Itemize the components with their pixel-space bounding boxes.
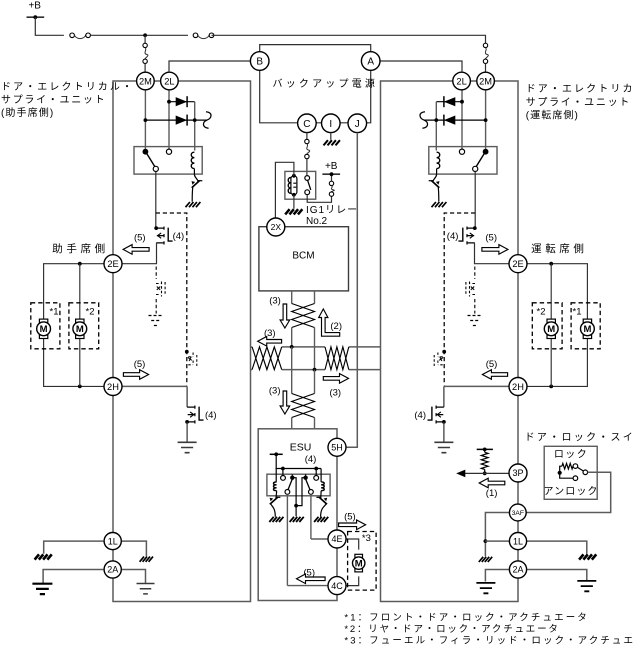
ESU relay coil left (lock) [275, 469, 277, 482]
earth ground below FET (driver-side) [434, 442, 453, 452]
connector 4E [328, 530, 346, 548]
diode D2 row (driver-side) [484, 118, 488, 122]
svg-text:運転席側: 運転席側 [531, 242, 587, 255]
wire drop to left 2M [144, 35, 146, 43]
arrow (5) left at 2E (passenger-side) [123, 245, 149, 255]
dashed FET icon lower (driver-side) [434, 353, 443, 367]
svg-text:(助手席側): (助手席側) [1, 106, 54, 119]
unit relay box (passenger-side) [134, 147, 202, 175]
wire 1L left segment (driver) [485, 540, 509, 542]
svg-text:*1: *1 [50, 307, 59, 318]
wire 2L drop to relay (driver-side) [461, 90, 463, 150]
earth ground (2A right) [137, 584, 155, 594]
connector 2M (passenger-side) [137, 72, 155, 90]
wire 1L to left ground (passenger) [44, 541, 104, 554]
wire 2M drop to relay (driver-side) [485, 90, 487, 150]
svg-text:ロック: ロック [554, 448, 588, 460]
svg-text:M: M [40, 324, 48, 335]
relay coil (driver-side) [437, 152, 440, 168]
wire 2A to right ground (passenger) [121, 570, 145, 584]
svg-text:2H: 2H [107, 382, 119, 392]
wire coil to transistor (passenger-side) [193, 169, 195, 175]
connector J [348, 114, 367, 133]
arrow (5) left at 4C [297, 574, 326, 584]
door lock switch contacts [558, 471, 562, 475]
wire coil to 2X (BCM supply) [275, 162, 294, 218]
svg-text:(運転席側): (運転席側) [526, 109, 579, 122]
earth ground bold (2A left) [32, 584, 52, 594]
wire coil to ground [293, 195, 295, 209]
wire 3P output with arrowhead [462, 472, 509, 474]
connector C [298, 114, 317, 133]
junction dot on dashed edge (passenger-side) [185, 350, 189, 354]
svg-text:*2: *2 [537, 307, 546, 318]
svg-text:(5): (5) [486, 359, 498, 370]
svg-text:IG1リレー: IG1リレー [306, 205, 358, 216]
wire 2M drop to relay (passenger-side) [144, 90, 146, 150]
dashed wire to dashed ground (driver-side) [474, 299, 476, 314]
svg-text:3P: 3P [512, 468, 523, 478]
arrow (5) left at 2H (driver-side) [482, 370, 507, 380]
svg-text:(3): (3) [329, 387, 341, 398]
wire B to left 2L riser [169, 61, 250, 72]
svg-text:No.2: No.2 [306, 216, 328, 227]
wire J down to 5H on ESU [346, 133, 357, 448]
unit relay box (driver-side) [429, 147, 497, 175]
wire 4C left segment [287, 585, 328, 587]
svg-text:ドア・エレクトリカル・: ドア・エレクトリカル・ [1, 81, 134, 93]
connector 2E (driver-side) [509, 255, 527, 273]
wire 2H to lock FET (passenger-side) [122, 385, 187, 387]
ESU switch2 moving contact and arm [305, 474, 307, 478]
svg-text:(5): (5) [485, 232, 497, 243]
relay coil (passenger-side) [191, 152, 194, 168]
wire 2A to left ground (driver) [485, 570, 509, 582]
ground under IG1 coil (chassis, bold) [285, 209, 302, 214]
wire diode D1 to relay coil (passenger-side) [194, 102, 196, 151]
svg-text:助手席側: 助手席側 [52, 242, 108, 255]
junction dot on dashed edge (driver-side) [442, 350, 446, 354]
resistor pull-up at 3P [477, 448, 493, 450]
svg-text:(5): (5) [134, 232, 146, 243]
ESU unlock relay driver transistor [320, 491, 322, 498]
svg-text:2E: 2E [107, 259, 118, 269]
BCM box [259, 227, 349, 291]
svg-text:2M: 2M [139, 76, 152, 86]
wire twisted pair to bus junctions [291, 328, 293, 347]
dashed FET icon mid (driver-side) [466, 282, 475, 297]
svg-text:A: A [367, 57, 374, 68]
motor M *1 front door lock actuator (driver-side) [583, 319, 591, 322]
wire chain to 2M [144, 64, 146, 73]
junction dot CAN-H / bus [290, 345, 294, 349]
CAN bus line upper [282, 346, 325, 348]
svg-text:ドア・ロック・スイッチ: ドア・ロック・スイッチ [525, 431, 634, 443]
wire switch to 3AF [526, 472, 611, 512]
actuator *2 dashed box (passenger-side) [69, 303, 99, 349]
in-line connector chain to +B [329, 181, 333, 185]
svg-text:2A: 2A [107, 565, 118, 575]
svg-text:BCM: BCM [292, 250, 314, 261]
connector 5H [328, 438, 346, 456]
wire below C [306, 133, 308, 140]
node +B (IG1 relay feed) [331, 174, 333, 181]
svg-text:ESU: ESU [290, 442, 312, 454]
internal supply T-bar in ESU [270, 453, 283, 455]
wire relay switch down to FET (driver-side) [474, 172, 476, 229]
motor M *2 rear door lock actuator (passenger-side) [76, 319, 84, 322]
wire chain to right 2M [485, 64, 487, 73]
relay moving contact (passenger-side) [143, 149, 149, 155]
connector I [322, 114, 341, 133]
svg-text:*1：フロント・ドア・ロック・アクチュエータ: *1：フロント・ドア・ロック・アクチュエータ [344, 612, 589, 623]
ESU switch1 moving contact and arm [291, 474, 293, 478]
svg-text:(4): (4) [305, 454, 317, 465]
wire 2H to lock FET (driver-side) [444, 385, 509, 387]
wire 2A to left ground (passenger) [43, 570, 103, 584]
wire switch2 output to 4E [310, 494, 312, 539]
svg-text:ドア・エレクトリカル・: ドア・エレクトリカル・ [526, 83, 634, 95]
ESU switch2 fixed contact stub [315, 469, 317, 476]
ground under lock driver [269, 517, 283, 522]
connector 2L (driver-side) [453, 72, 471, 90]
ground under unlock driver [314, 517, 328, 522]
internal supply rail in ESU [276, 468, 322, 470]
wire 2E to actuator motors (driver-side) [527, 264, 587, 320]
ground under ESU switch common [290, 517, 304, 522]
svg-text:M: M [76, 324, 84, 335]
dashed wire to monitor FET (driver-side) [474, 267, 476, 280]
p-FET lower (passenger-side) with gate (4) [185, 420, 189, 424]
earth ground below FET (passenger-side) [178, 442, 197, 452]
wire rail to right drop at 2M (driver side) [212, 35, 486, 43]
dashed wire to dashed ground (passenger-side) [155, 299, 157, 314]
actuator *2 dashed box (driver-side) [532, 303, 562, 349]
wire 2E to actuator motors (passenger-side) [44, 264, 104, 320]
ESU lock relay driver transistor [275, 491, 278, 498]
wire 3AF to junction with 1L wire [485, 513, 509, 557]
dashed ground (passenger-side) [149, 316, 164, 326]
svg-text:サプライ・ユニット: サプライ・ユニット [1, 94, 106, 106]
connector 2H (driver-side) [509, 378, 527, 396]
connector B [250, 52, 269, 71]
wire relay switch down to FET (passenger-side) [155, 172, 157, 229]
svg-text:J: J [355, 119, 360, 130]
wire 4E left segment [311, 538, 329, 540]
svg-text:(4): (4) [447, 231, 459, 242]
svg-text:2H: 2H [512, 382, 524, 392]
wire 2A to right ground (driver) [527, 570, 587, 581]
svg-text:サプライ・ユニット: サプライ・ユニット [526, 97, 631, 109]
p-FET lower (driver-side) with gate (4) [442, 420, 446, 424]
wire rail segment [90, 34, 188, 36]
wire FET to ground (driver-side) [443, 422, 445, 442]
wire 3P into unit [509, 472, 517, 474]
chassis ground bold (1L left) [35, 554, 52, 559]
door lock switch arm [577, 467, 583, 471]
wire switch1 output to 4C [286, 494, 288, 585]
svg-text:*3: *3 [362, 533, 371, 544]
wire FET source to 2E (driver-side) [475, 243, 510, 264]
svg-text:4E: 4E [331, 534, 342, 544]
IG1 relay No.2 box [285, 171, 316, 199]
wire FET source to 2E (passenger-side) [122, 243, 157, 264]
wire BCM CAN-L down [314, 291, 316, 304]
door lock switch box [544, 446, 597, 499]
svg-text:5H: 5H [331, 443, 343, 453]
ground under transistor (driver-side) [432, 202, 447, 207]
ESU switch1 fixed contact stub [282, 469, 284, 476]
ground under transistor (passenger-side) [186, 202, 201, 207]
wire FET to ground (passenger-side) [186, 422, 188, 442]
wire +B power rail [35, 17, 64, 35]
connector 4C [328, 577, 346, 595]
wire A to right 2L riser [380, 61, 462, 72]
relay fixed contact (passenger-side) [166, 149, 171, 154]
CAN bus line lower [282, 369, 325, 371]
connector 3P [509, 464, 527, 482]
relay moving contact (driver-side) [483, 149, 489, 155]
svg-text:+B: +B [325, 161, 338, 172]
ESU relay box [267, 474, 330, 496]
earth ground (2A right, driver) [577, 581, 596, 591]
junction dot CAN-L / bus [313, 368, 317, 372]
svg-text:(5): (5) [134, 359, 146, 370]
wire switch commons to ground [292, 478, 305, 506]
twisted pair bus right (to driver unit) [325, 347, 349, 370]
junction dot above left 2M [143, 33, 147, 37]
transistor Q (relay driver, driver-side) [433, 174, 437, 181]
connector 2M (driver-side) [477, 72, 495, 90]
p-FET upper (passenger-side) with gate (4) [154, 226, 158, 230]
wire chain to IG1 relay switch [306, 159, 308, 176]
wire 1L to right ground (passenger) [121, 541, 146, 556]
ground under I (chassis) [330, 133, 332, 140]
actuator *3 dashed box [348, 532, 377, 591]
svg-text:(2): (2) [330, 321, 342, 332]
svg-text:3AF: 3AF [512, 510, 524, 517]
svg-text:*1: *1 [573, 307, 582, 318]
wires twisted pair into ESU top [291, 418, 293, 429]
wire motors to 2H (driver-side) [527, 338, 587, 386]
wire BCM CAN-H down [291, 291, 293, 304]
chassis ground bold (1L right, driver) [579, 554, 596, 559]
ESU box [258, 429, 337, 601]
svg-text:(1): (1) [486, 488, 498, 499]
connector 1L (passenger) [104, 533, 121, 550]
battery stub bar with junction dot [27, 16, 45, 18]
wire bus down to ESU (CAN-H) [291, 347, 293, 394]
transistor Q (relay driver, passenger-side) [194, 174, 198, 181]
arrow (5) right at 2H (passenger-side) [123, 370, 148, 380]
chassis ground small (3AF/1L junction) [479, 557, 492, 562]
wire diode D1 to relay coil (driver-side) [435, 102, 437, 151]
relay coil (IG1) [291, 176, 297, 195]
svg-text:I: I [329, 119, 332, 130]
wire 1L to right ground (driver) [527, 541, 587, 554]
in-line connector chain above right 2M [483, 43, 487, 47]
svg-text:1L: 1L [513, 536, 523, 546]
svg-text:アンロック: アンロック [543, 485, 598, 497]
svg-text:1L: 1L [108, 536, 118, 546]
svg-text:バックアップ電源: バックアップ電源 [273, 77, 379, 90]
twisted pair bus left (to passenger unit) [251, 346, 252, 348]
motor M *1 front door lock actuator (passenger-side) [39, 319, 47, 322]
dashed FET icon mid (passenger-side) [156, 282, 165, 297]
svg-text:(5): (5) [344, 512, 356, 523]
relay switch contacts (IG1) [305, 176, 310, 181]
connector 2A (driver) [509, 561, 526, 578]
dashed wire to monitor FET (passenger-side) [155, 267, 157, 280]
wire T-bar to rail [275, 454, 277, 468]
wire 4E to fuel-lid motor [346, 539, 359, 550]
twisted pair bus to ESU [292, 394, 315, 418]
earth ground (2A left, driver) [476, 583, 495, 593]
connector 2X on BCM [267, 218, 285, 236]
svg-text:(3): (3) [269, 296, 281, 307]
wire coil to transistor (driver-side) [436, 169, 438, 175]
arrow (1) left at 3P [479, 478, 505, 488]
in-line connector pair on rail, right [193, 33, 198, 38]
connector 1L (driver) [509, 533, 526, 550]
svg-text:2L: 2L [456, 76, 466, 86]
dashed internal outline (passenger-side) [156, 213, 187, 385]
p-FET upper (driver-side) with gate (4) [473, 226, 477, 230]
svg-text:(3): (3) [269, 385, 281, 396]
arrow (5) right at 4E [339, 520, 366, 530]
svg-text:4C: 4C [331, 581, 343, 591]
svg-text:B: B [256, 57, 263, 68]
svg-text:(4): (4) [173, 231, 185, 242]
connector 2H (passenger-side) [104, 378, 122, 396]
svg-text:2M: 2M [479, 76, 492, 86]
svg-text:M: M [583, 324, 591, 335]
actuator *1 dashed box (passenger-side) [31, 303, 60, 349]
door electrical supply unit box (driver-side) [381, 81, 519, 602]
twisted pair BCM to bus [292, 304, 315, 328]
diode D1 row (passenger-side) [167, 100, 171, 104]
door electrical supply unit box (passenger-side) [113, 81, 251, 602]
in-line connector chain above left 2M [143, 43, 147, 47]
connector 3AF [509, 504, 526, 521]
svg-text:2X: 2X [271, 222, 282, 232]
motor M *3 fuel filler lid lock actuator [355, 554, 363, 557]
arrow (5) right at 2E (driver-side) [482, 245, 508, 255]
relay fixed contact (driver-side) [459, 149, 464, 154]
svg-text:(4): (4) [414, 410, 426, 421]
wire 2L drop to relay (passenger-side) [168, 90, 170, 150]
actuator *1 dashed box (driver-side) [571, 303, 600, 349]
svg-text:+B: +B [28, 1, 41, 12]
chassis ground small (1L right) [140, 557, 153, 562]
svg-text:2E: 2E [512, 259, 523, 269]
in-line connector pair (fuse link) on rail, left [70, 33, 75, 38]
svg-text:(4): (4) [205, 410, 217, 421]
svg-text:*2: *2 [86, 307, 95, 318]
in-line connector chain below C [305, 139, 309, 143]
connector 2E (passenger-side) [104, 255, 122, 273]
svg-text:M: M [547, 324, 555, 335]
connector 2L (passenger-side) [161, 72, 179, 90]
wire-break squiggle (passenger-side) [203, 112, 211, 128]
svg-text:2L: 2L [164, 76, 174, 86]
backup power supply box (バックアップ電源) [260, 45, 371, 123]
svg-text:*3：フューエル・フィラ・リッド・ロック・アクチュエータ: *3：フューエル・フィラ・リッド・ロック・アクチュエータ [344, 636, 634, 645]
connector A [361, 52, 380, 71]
diode D1 row (driver-side) [460, 100, 464, 104]
ESU relay coil right (unlock) [320, 469, 322, 482]
wire-break squiggle (driver-side) [420, 112, 428, 128]
svg-text:C: C [303, 119, 310, 130]
svg-text:2A: 2A [512, 565, 523, 575]
wire motors to 2H (passenger-side) [44, 338, 104, 386]
diode D2 row (passenger-side) [144, 118, 148, 122]
dashed internal outline (driver-side) [444, 213, 475, 385]
svg-text:*2：リヤ・ドア・ロック・アクチュエータ: *2：リヤ・ドア・ロック・アクチュエータ [344, 624, 559, 635]
wire switch to +B connector chain [307, 195, 331, 203]
wire bus down to ESU (CAN-L) [314, 370, 316, 394]
dashed ground (driver-side) [468, 316, 483, 326]
svg-text:M: M [355, 559, 363, 570]
dashed FET icon lower (passenger-side) [188, 353, 197, 367]
wire 4C to fuel-lid motor [346, 576, 359, 585]
connector 2A (passenger) [104, 561, 121, 578]
motor M *2 rear door lock actuator (driver-side) [547, 319, 555, 322]
